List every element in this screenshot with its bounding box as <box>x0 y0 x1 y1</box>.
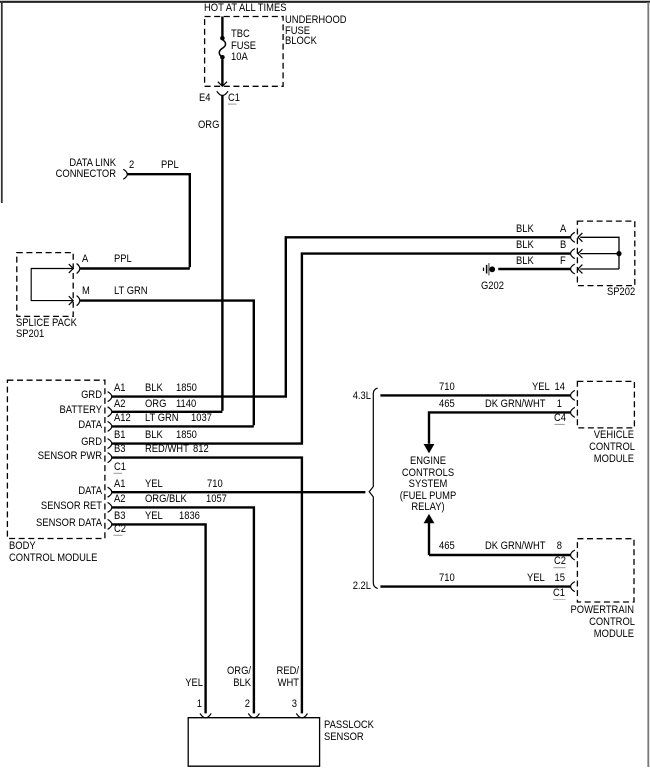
splice SP202 terminal A cup <box>571 232 575 242</box>
wire DK GRN/WHT 465 - PCM pin 8 to fuel pump relay <box>429 523 571 555</box>
label CONTROL MODULE <box>9 553 97 564</box>
label PPL <box>114 254 132 265</box>
label SYSTEM <box>300 479 556 490</box>
label LT GRN <box>145 413 179 424</box>
splice SP202 terminal F cup <box>571 264 575 274</box>
underline BCM C1 <box>114 472 123 474</box>
page border left <box>1 1 3 203</box>
body control module box <box>7 380 105 538</box>
label C2 <box>114 524 126 535</box>
label YEL <box>0 678 203 689</box>
label CONTROL <box>378 442 634 453</box>
label HOT AT ALL TIMES <box>204 3 286 14</box>
label ORG/BLK <box>145 494 187 505</box>
label 2.2L <box>115 581 371 592</box>
label DK GRN/WHT <box>485 541 546 552</box>
label A1 <box>114 383 126 394</box>
underline BCM C2 <box>114 534 123 536</box>
fuse F1 TBC 10A - top terminal dot <box>220 36 225 41</box>
label C1 <box>228 93 240 104</box>
label 812 <box>193 444 209 455</box>
splice SP201 internal bus <box>31 269 72 301</box>
label DATA <box>0 486 102 497</box>
label 1140 <box>176 399 196 410</box>
label G202 <box>481 281 504 292</box>
label ORG/ <box>0 666 251 677</box>
label 1 <box>306 399 562 410</box>
label 2 <box>129 160 134 171</box>
label YEL <box>532 382 550 393</box>
label FUSE <box>285 26 310 37</box>
label 14 <box>308 382 564 393</box>
label RED/ <box>43 666 299 677</box>
label BLOCK <box>285 36 317 47</box>
label 3 <box>41 699 297 710</box>
wire YEL 710 - 2.2L option to PCM pin 15 <box>380 585 570 587</box>
label 8 <box>306 541 562 552</box>
label M <box>82 286 90 297</box>
label 1850 <box>176 430 197 441</box>
fuse F1 TBC 10A - element squiggle <box>219 40 225 58</box>
label DATA <box>0 420 102 431</box>
passlock sensor terminal 1 cup <box>200 713 211 717</box>
label A <box>82 254 88 265</box>
label SENSOR <box>324 732 364 743</box>
label (FUEL PUMP <box>300 491 556 502</box>
label CONTROL <box>378 617 634 628</box>
label A12 <box>114 413 131 424</box>
label A2 <box>114 494 126 505</box>
passlock sensor terminal 2 cup <box>248 713 259 717</box>
label C1 <box>553 588 565 599</box>
passlock sensor box <box>188 718 319 767</box>
page border top <box>0 1 650 3</box>
wire ORG/BLK 1057 - BCM pin A2 down to passlock sensor pin 2 <box>112 507 254 713</box>
splice SP201 arrowhead M <box>69 296 73 305</box>
label 15 <box>309 573 565 584</box>
wire LT GRN - splice SP201 M to BCM pin A12 <box>80 301 254 427</box>
wire YEL 1836 - BCM pin B3 down to passlock sensor pin 1 <box>112 524 206 713</box>
label YEL <box>527 573 545 584</box>
label YEL <box>145 479 163 490</box>
connector C1 terminal E4 cup <box>217 91 228 95</box>
label 2 <box>0 699 250 710</box>
label ORG <box>198 120 219 131</box>
label B <box>560 240 566 251</box>
splice SP202 terminal B cup <box>571 249 575 259</box>
splice SP202 arrowhead A <box>578 233 582 242</box>
BCM terminal A1 cup <box>108 392 112 402</box>
BCM terminal A12 cup <box>108 421 112 431</box>
BCM terminal B3 cup <box>108 453 112 463</box>
label GRD <box>0 390 102 401</box>
PCM terminal 15 cup <box>571 582 575 592</box>
splice SP202 arrowhead B <box>578 249 582 258</box>
BCM terminal A2 cup <box>108 502 112 512</box>
label BLK <box>145 430 163 441</box>
splice SP201 terminal A cup <box>77 264 80 274</box>
PCM terminal 8 cup <box>571 550 575 560</box>
label SENSOR RET <box>0 501 102 512</box>
label TBC <box>231 29 250 40</box>
wire ORG 1140 - from C1 down to BCM pin A2 <box>112 96 223 412</box>
BCM terminal A1 cup <box>108 487 112 497</box>
label BATTERY <box>0 405 102 416</box>
wire BLK 1850 - BCM pin A1 up to splice SP202 A <box>112 237 571 396</box>
arrow to engine controls system (up) <box>424 514 435 523</box>
label BLK <box>516 224 534 235</box>
label VEHICLE <box>378 430 634 441</box>
label POWERTRAIN <box>378 605 634 616</box>
splice SP202 junction dot <box>616 251 621 256</box>
label SPLICE PACK <box>16 318 77 329</box>
VCM terminal 1 cup <box>571 407 575 417</box>
label WHT <box>43 678 299 689</box>
label 710 <box>439 573 455 584</box>
page border right <box>647 2 649 767</box>
wire PPL - DLC pin 2 to splice pack SP201 A <box>80 174 190 268</box>
fuse F1 TBC 10A - bottom terminal dot <box>220 55 225 60</box>
label A1 <box>114 479 126 490</box>
BCM terminal B1 cup <box>108 439 112 449</box>
splice SP201 arrowhead A <box>69 264 73 273</box>
label YEL <box>145 511 163 522</box>
label BLK <box>516 256 534 267</box>
label CONNECTOR <box>0 169 116 180</box>
label 1057 <box>206 494 227 505</box>
label 10A <box>231 52 248 63</box>
label SENSOR DATA <box>0 518 102 529</box>
label RELAY) <box>300 502 556 513</box>
label C2 <box>554 556 566 567</box>
label SENSOR PWR <box>0 451 102 462</box>
label GRD <box>0 437 102 448</box>
engine option brace <box>369 388 377 588</box>
wire DK GRN/WHT 465 - VCM pin 1 to fuel pump relay <box>429 412 571 443</box>
VCM terminal 14 cup <box>571 390 575 400</box>
label A <box>560 224 566 235</box>
wire - battery feed into fuse <box>221 17 223 37</box>
wire YEL 710 - 4.3L option to VCM pin 14 <box>380 394 570 396</box>
label PPL <box>161 160 179 171</box>
label DATA LINK <box>0 158 116 169</box>
data link connector terminal 2 cup <box>123 169 127 179</box>
splice SP202 internal bus <box>580 237 619 269</box>
label CONTROLS <box>300 468 556 479</box>
splice SP201 terminal M cup <box>77 296 80 306</box>
vehicle control module box <box>577 381 634 428</box>
wire RED/WHT 812 - BCM pin B3 down to passlock sensor pin 3 <box>112 458 302 714</box>
label MODULE <box>378 629 634 640</box>
label 1 <box>0 699 202 710</box>
label RED/WHT <box>145 444 189 455</box>
label B3 <box>114 444 126 455</box>
label C1 <box>114 462 126 473</box>
wire YEL 710 - BCM pin A1 to engine-option brace <box>112 491 366 493</box>
splice pack SP201 box <box>17 253 73 317</box>
label ENGINE <box>300 456 556 467</box>
label A2 <box>114 399 126 410</box>
splice pack SP202 box <box>577 221 634 286</box>
label BLK <box>0 678 251 689</box>
underhood fuse block box <box>205 17 284 87</box>
ground G202 symbol <box>483 268 485 271</box>
underline C1 (E4) <box>228 103 237 105</box>
BCM terminal B3 cup <box>108 519 112 529</box>
label 1836 <box>179 511 200 522</box>
label UNDERHOOD <box>285 15 347 26</box>
wire - fuse output to fuse block edge <box>221 60 223 86</box>
wire BLK 1850 - BCM pin B1 up to splice SP202 B <box>112 254 571 444</box>
arrow to engine controls system (down) <box>424 444 435 453</box>
label 465 <box>439 399 455 410</box>
underline PCM C1 <box>553 599 565 601</box>
label BLK <box>145 383 163 394</box>
label FUSE <box>231 41 256 52</box>
label F <box>560 256 566 267</box>
label 4.3L <box>115 391 371 402</box>
powertrain control module box <box>577 539 634 602</box>
label 710 <box>207 479 223 490</box>
label 1037 <box>191 413 212 424</box>
label SP201 <box>16 329 44 340</box>
label ORG <box>145 399 166 410</box>
label DK GRN/WHT <box>485 399 546 410</box>
underline PCM C2 <box>554 567 566 569</box>
label E4 <box>199 93 211 104</box>
label 710 <box>439 382 455 393</box>
label BODY <box>9 541 36 552</box>
label B1 <box>114 430 126 441</box>
label 465 <box>439 541 455 552</box>
label B3 <box>114 511 126 522</box>
label PASSLOCK <box>324 720 374 731</box>
label 1850 <box>176 383 197 394</box>
arrowhead at fuse block edge <box>218 82 227 87</box>
label SP202 <box>607 287 635 298</box>
label LT GRN <box>114 286 148 297</box>
label MODULE <box>378 454 634 465</box>
splice SP202 arrowhead F <box>578 265 582 274</box>
label BLK <box>516 240 534 251</box>
wire BLK - G202 to splice SP202 F <box>498 268 570 270</box>
label C4 <box>554 413 566 424</box>
underline C4 <box>554 423 564 425</box>
BCM terminal A2 cup <box>108 407 112 417</box>
passlock sensor terminal 3 cup <box>296 713 307 717</box>
